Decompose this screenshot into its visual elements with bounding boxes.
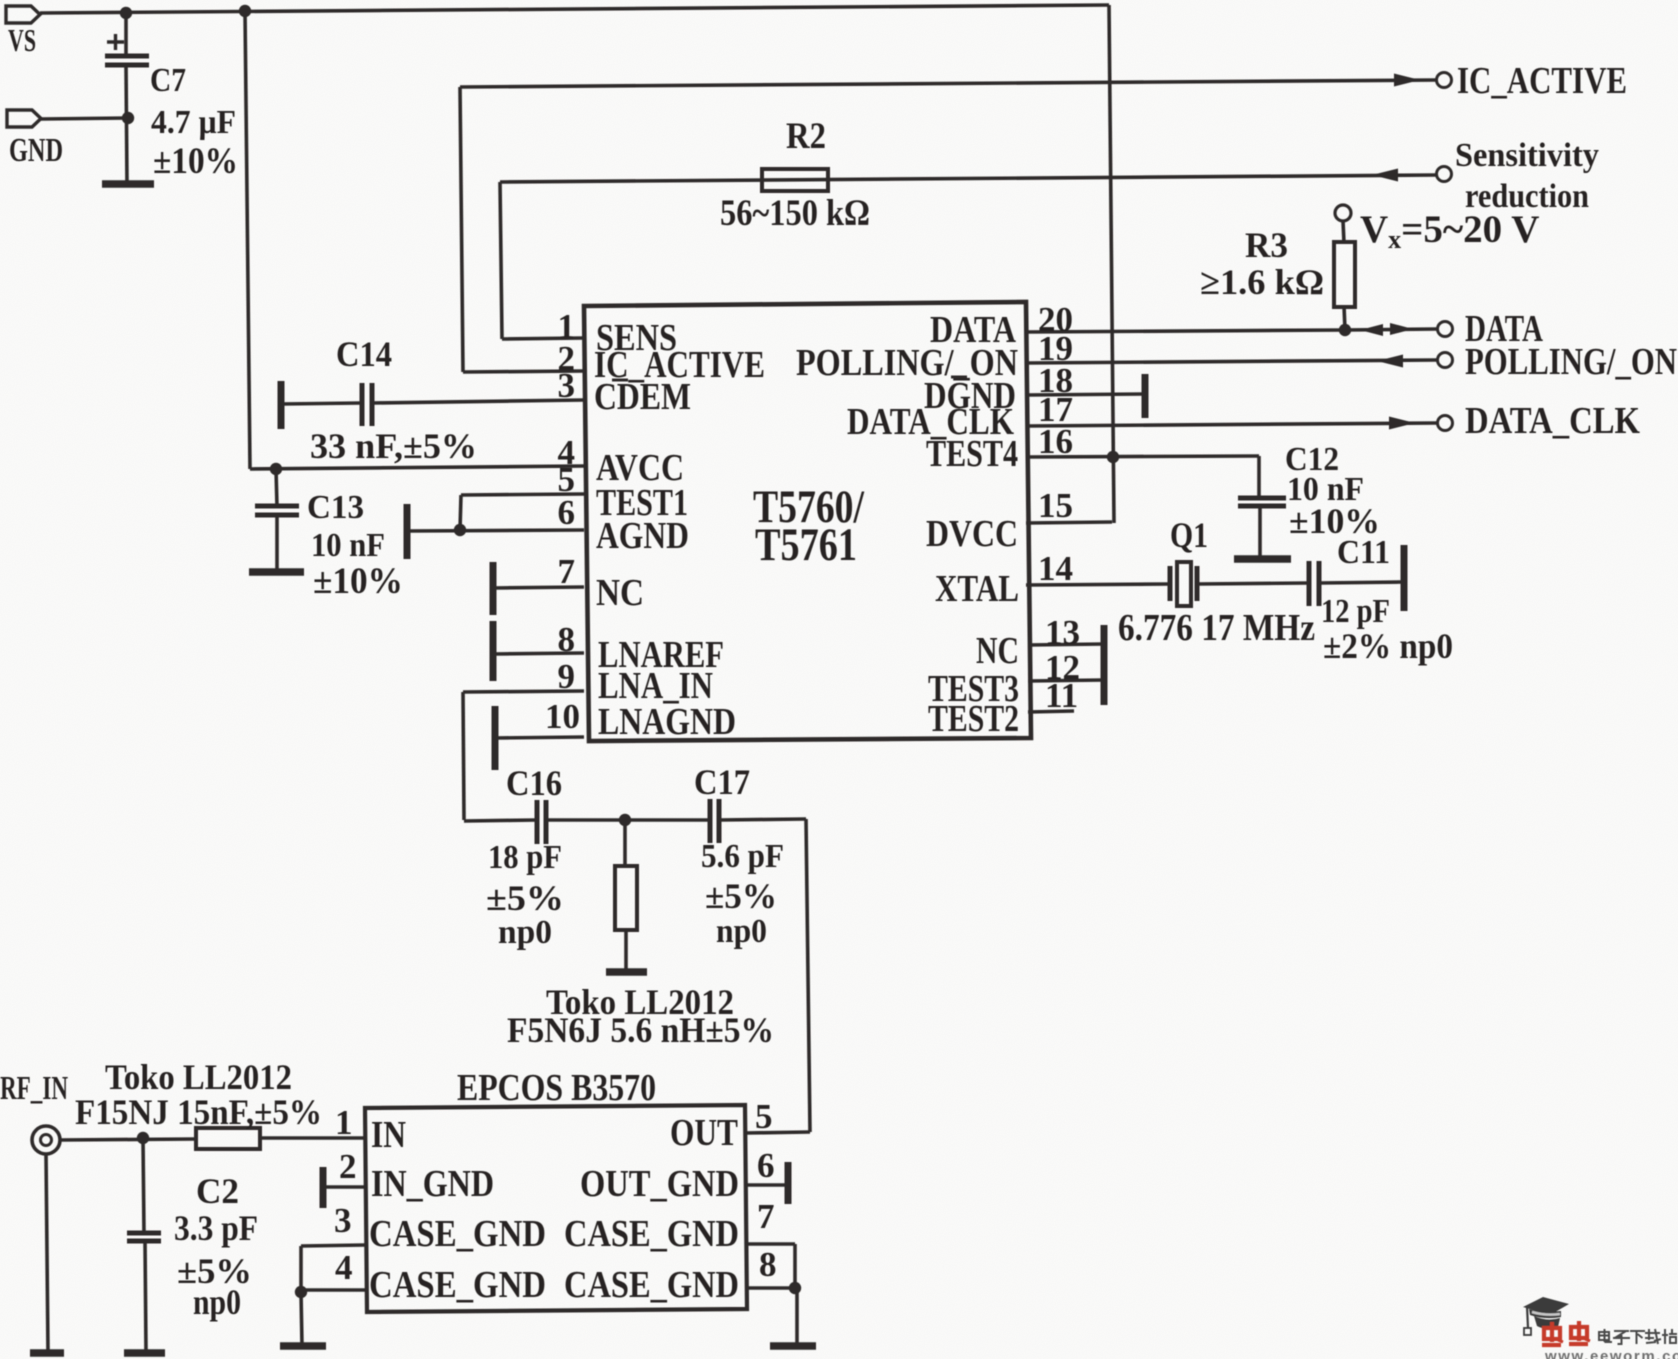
svg-text:DVCC: DVCC <box>926 513 1018 555</box>
svg-text:5.6 pF: 5.6 pF <box>701 838 784 875</box>
svg-text:POLLING/_ON: POLLING/_ON <box>1465 341 1677 383</box>
svg-text:3.3 pF: 3.3 pF <box>174 1208 258 1248</box>
svg-text:18 pF: 18 pF <box>488 839 562 876</box>
svg-text:F5N6J 5.6 nH±5%: F5N6J 5.6 nH±5% <box>507 1010 774 1050</box>
svg-text:10 nF: 10 nF <box>311 527 385 564</box>
svg-text:C16: C16 <box>506 763 562 803</box>
svg-text:6: 6 <box>757 1146 775 1185</box>
svg-text:6: 6 <box>558 493 576 532</box>
svg-text:Q1: Q1 <box>1170 515 1208 555</box>
svg-text:R3: R3 <box>1245 225 1288 265</box>
svg-text:Sensitivity: Sensitivity <box>1455 137 1599 174</box>
svg-text:AGND: AGND <box>596 515 689 557</box>
svg-text:F15NJ 15nF,±5%: F15NJ 15nF,±5% <box>75 1092 322 1132</box>
svg-text:IC_ACTIVE: IC_ACTIVE <box>1457 60 1627 102</box>
svg-text:TEST4: TEST4 <box>926 433 1018 475</box>
svg-text:3: 3 <box>334 1201 352 1240</box>
svg-text:16: 16 <box>1038 422 1073 461</box>
svg-text:C17: C17 <box>694 762 750 802</box>
svg-text:10: 10 <box>545 697 580 736</box>
svg-text:GND: GND <box>9 132 63 169</box>
svg-text:8: 8 <box>558 620 576 659</box>
svg-text:12 pF: 12 pF <box>1321 593 1390 630</box>
svg-text:±5%: ±5% <box>705 876 777 916</box>
svg-text:OUT_GND: OUT_GND <box>580 1163 739 1205</box>
svg-text:np0: np0 <box>193 1282 241 1322</box>
svg-text:RF_IN: RF_IN <box>0 1070 68 1107</box>
svg-text:CDEM: CDEM <box>594 376 691 418</box>
svg-text:±2% np0: ±2% np0 <box>1323 626 1453 666</box>
svg-text:2: 2 <box>339 1147 357 1186</box>
svg-text:www.eeworm.com: www.eeworm.com <box>1544 1348 1678 1359</box>
svg-text:VS: VS <box>8 22 36 58</box>
svg-text:6.776 17 MHz: 6.776 17 MHz <box>1118 607 1315 649</box>
svg-text:Toko LL2012: Toko LL2012 <box>105 1057 292 1097</box>
svg-text:np0: np0 <box>716 913 767 950</box>
svg-text:±5%: ±5% <box>486 878 564 918</box>
svg-text:13: 13 <box>1045 613 1080 652</box>
svg-text:33 nF,±5%: 33 nF,±5% <box>310 426 477 466</box>
svg-text:14: 14 <box>1038 549 1073 588</box>
svg-text:XTAL: XTAL <box>935 568 1019 610</box>
svg-text:4: 4 <box>335 1248 353 1287</box>
svg-text:LNAGND: LNAGND <box>598 701 736 743</box>
svg-text:4.7 µF: 4.7 µF <box>151 104 236 141</box>
svg-text:1: 1 <box>335 1103 353 1142</box>
svg-text:C11: C11 <box>1337 534 1390 571</box>
svg-text:CASE_GND: CASE_GND <box>564 1213 739 1255</box>
svg-text:9: 9 <box>558 657 576 696</box>
svg-text:DATA_CLK: DATA_CLK <box>1465 400 1640 442</box>
svg-text:NC: NC <box>596 572 644 614</box>
svg-text:±10%: ±10% <box>313 561 403 602</box>
svg-text:C2: C2 <box>196 1171 239 1211</box>
svg-text:7: 7 <box>558 552 576 591</box>
svg-text:R2: R2 <box>786 116 826 157</box>
svg-text:IN: IN <box>371 1114 406 1156</box>
svg-text:56~150 kΩ: 56~150 kΩ <box>720 193 870 234</box>
svg-text:C7: C7 <box>150 62 186 99</box>
svg-text:7: 7 <box>757 1197 775 1236</box>
svg-text:NC: NC <box>976 630 1019 672</box>
svg-text:11: 11 <box>1045 676 1078 715</box>
svg-text:C13: C13 <box>307 489 364 526</box>
svg-text:Vx=5~20 V: Vx=5~20 V <box>1360 208 1539 254</box>
svg-text:TEST2: TEST2 <box>928 698 1019 740</box>
svg-text:CASE_GND: CASE_GND <box>369 1213 546 1255</box>
svg-text:±10%: ±10% <box>153 141 238 182</box>
svg-text:CASE_GND: CASE_GND <box>369 1264 546 1306</box>
svg-text:T5761: T5761 <box>755 519 857 571</box>
svg-text:IN_GND: IN_GND <box>371 1163 494 1205</box>
svg-text:3: 3 <box>558 366 576 405</box>
svg-text:15: 15 <box>1038 486 1073 525</box>
svg-text:np0: np0 <box>498 914 552 951</box>
svg-text:C14: C14 <box>336 334 392 374</box>
svg-text:CASE_GND: CASE_GND <box>564 1264 739 1306</box>
svg-text:≥1.6 kΩ: ≥1.6 kΩ <box>1200 262 1324 302</box>
svg-text:OUT: OUT <box>670 1112 738 1154</box>
svg-text:5: 5 <box>755 1097 773 1136</box>
svg-text:EPCOS B3570: EPCOS B3570 <box>457 1067 656 1109</box>
svg-text:8: 8 <box>759 1245 777 1284</box>
